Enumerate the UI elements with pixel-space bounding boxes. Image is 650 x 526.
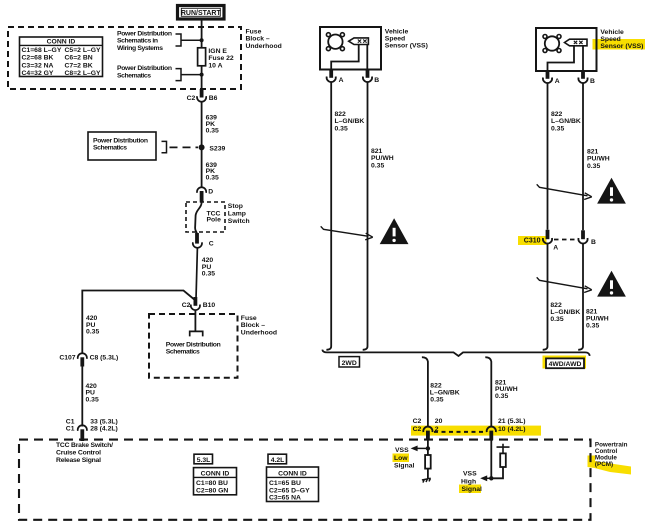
svg-text:Release Signal: Release Signal [56, 457, 101, 464]
connector C2 cup (PCM right) [487, 427, 496, 433]
highlight over "Low" of VSS Low Signal [393, 454, 410, 463]
pin labels C2 20 2 at PCM left [413, 418, 443, 433]
wire 822 from left VSS pin A to bus [326, 82, 331, 350]
svg-text:Block –: Block – [246, 36, 270, 43]
svg-text:Switch: Switch [228, 218, 250, 225]
wire from B10 into fuse block 2 [194, 310, 196, 331]
wire label 822 L-GN/BK 0.35 (right pair) [551, 111, 581, 132]
svg-text:822: 822 [550, 302, 562, 309]
ground (VSS low) [422, 478, 431, 482]
svg-text:20: 20 [435, 418, 443, 425]
svg-text:C5=2 L–GY: C5=2 L–GY [65, 47, 102, 54]
svg-text:A: A [339, 77, 344, 84]
CONN ID table 4.2L [267, 467, 319, 502]
svg-text:VSS: VSS [395, 447, 409, 454]
highlight over 4WD/AWD tag [543, 356, 587, 369]
svg-text:A: A [555, 78, 560, 85]
warning triangle (right lower) [598, 272, 624, 296]
wire label 420 PU 0.35 (branch upper) [86, 315, 99, 335]
connector D cup [197, 187, 206, 193]
highlight swipe over Powertrain Control Module (PCM) label [588, 456, 632, 475]
wire label 821 PU/WH 0.35 (left pair) [371, 148, 394, 169]
svg-text:CONN ID: CONN ID [201, 470, 230, 477]
svg-text:10 (4.2L): 10 (4.2L) [498, 426, 526, 433]
svg-text:Power Distribution: Power Distribution [117, 65, 172, 72]
svg-text:0.35: 0.35 [586, 322, 599, 329]
svg-text:S239: S239 [209, 145, 225, 152]
wire label 639 PK 0.35 (lower) [206, 162, 219, 182]
svg-text:CONN ID: CONN ID [278, 470, 307, 477]
svg-text:Sensor (VSS): Sensor (VSS) [385, 42, 428, 49]
resistor (VSS low) [425, 455, 431, 469]
svg-text:Power Distribution: Power Distribution [166, 341, 221, 348]
svg-text:C310: C310 [524, 238, 541, 245]
junction dot VSS low [426, 446, 430, 450]
svg-text:C2: C2 [413, 426, 422, 433]
connector C310 pin A [543, 230, 552, 244]
connector C2 pin (PCM left) [426, 431, 430, 441]
svg-text:0.35: 0.35 [206, 175, 219, 182]
svg-text:C1=65 BU: C1=65 BU [269, 480, 301, 487]
resistor top lead and internal source bar [497, 444, 510, 454]
svg-text:0.35: 0.35 [206, 127, 219, 134]
warning triangle (right upper) [598, 179, 624, 203]
svg-text:B6: B6 [209, 95, 218, 102]
CONN ID table (fuse block) [20, 37, 103, 77]
connector C cup [193, 242, 202, 248]
svg-text:Pole: Pole [207, 217, 222, 224]
svg-text:Cruise Control: Cruise Control [56, 450, 101, 457]
connector C310 pin B [578, 230, 587, 243]
label Power Distribution Schematics (lower left in fuse block) [117, 65, 172, 79]
wire from fuse to connector C2 B6 [201, 66, 203, 89]
warning triangle (left pair) [381, 220, 407, 244]
svg-text:21 (5.3L): 21 (5.3L) [498, 418, 526, 425]
connector C107 cup [78, 353, 87, 359]
svg-text:Sensor (VSS): Sensor (VSS) [600, 43, 643, 50]
svg-text:4.2L: 4.2L [271, 457, 285, 464]
svg-text:Signal: Signal [462, 486, 483, 493]
label VSS High Signal [461, 471, 482, 494]
svg-text:A: A [553, 244, 558, 251]
label Vehicle Speed Sensor (VSS) right [600, 29, 643, 50]
svg-text:Speed: Speed [600, 36, 620, 43]
wire label 822 L-GN/BK 0.35 (right pair lower) [550, 302, 580, 323]
svg-text:C4=32 GY: C4=32 GY [22, 70, 54, 77]
svg-text:C1=68 L–GY: C1=68 L–GY [22, 47, 62, 54]
label TCC Pole [207, 210, 222, 223]
svg-text:Vehicle: Vehicle [385, 28, 409, 35]
svg-text:Power Distribution: Power Distribution [117, 30, 172, 37]
svg-text:Underhood: Underhood [246, 43, 282, 50]
svg-text:Fuse: Fuse [246, 28, 262, 35]
wire from RUN/START into fuse block [201, 20, 203, 49]
wire label 639 PK 0.35 (upper) [206, 115, 219, 135]
bracket from schematics label to wire [176, 69, 202, 81]
VSS Low signal arrow [411, 446, 428, 452]
wire 822 stub from bus down to PCM pin (left middle) [422, 357, 428, 427]
svg-text:4WD/AWD: 4WD/AWD [549, 361, 582, 368]
left VSS reluctor wheel [326, 33, 344, 51]
RUN/START power feed box [178, 6, 225, 20]
labels A / B at C310 [553, 239, 596, 251]
left VSS pickup coil [349, 38, 369, 45]
bracket from reference box [162, 141, 167, 152]
bracket from wiring systems label to wire [176, 34, 202, 46]
wire 821 from left VSS pin B to bus [363, 82, 368, 350]
svg-text:Vehicle: Vehicle [600, 29, 624, 36]
right VSS pin A [543, 71, 560, 85]
svg-text:Power Distribution: Power Distribution [93, 137, 148, 144]
labels C2 / B6 [187, 95, 218, 102]
connector C2 cup (PCM left) [423, 427, 432, 433]
svg-text:Schematics: Schematics [93, 145, 127, 152]
highlight over C310 connector label [518, 236, 547, 245]
wire 821 from right VSS pin B to C310 [582, 83, 584, 230]
fuse block underhood dashed box (second) [149, 314, 238, 378]
svg-text:IGN E: IGN E [208, 48, 227, 55]
wire label 821 PU/WH 0.35 (right pair lower) [586, 308, 609, 329]
svg-text:Lamp: Lamp [228, 210, 246, 217]
highlight over "Sensor (VSS)" label of right VSS [593, 39, 646, 50]
wire 822 from right VSS pin A to C310 [547, 83, 549, 230]
label Power Distribution Schematics (fuse block 2) [166, 341, 221, 355]
connector D pin [200, 191, 204, 203]
label Fuse Block - Underhood (second) [241, 315, 277, 337]
C310 dashed link [554, 239, 576, 241]
svg-text:0.35: 0.35 [495, 393, 508, 400]
svg-text:Schematics: Schematics [166, 349, 200, 356]
wire from C107 down to C1 [81, 367, 83, 427]
off-page arrow across right pair (upper) [537, 184, 592, 199]
pin labels 21 10 at PCM right [498, 418, 526, 433]
svg-text:C8 (5.3L): C8 (5.3L) [90, 355, 119, 362]
4WD/AWD tag box [546, 358, 584, 368]
svg-text:L–GN/BK: L–GN/BK [551, 118, 581, 125]
svg-text:10 A: 10 A [208, 62, 222, 69]
TCC switch blade [195, 203, 202, 234]
svg-text:PU/WH: PU/WH [586, 315, 609, 322]
svg-text:C3=32 NA: C3=32 NA [22, 62, 54, 69]
CONN ID table 5.3L [194, 468, 237, 495]
svg-text:D: D [208, 188, 213, 195]
svg-text:0.35: 0.35 [86, 396, 99, 403]
junction at fuse bottom tap [200, 73, 204, 77]
svg-text:B: B [374, 77, 379, 84]
svg-text:821: 821 [586, 308, 598, 315]
svg-text:C6=2 BN: C6=2 BN [65, 55, 93, 62]
left VSS internal lead to pin A [331, 45, 359, 70]
wire label 821 PU/WH 0.35 (right pair) [587, 149, 610, 170]
svg-text:RUN/START: RUN/START [181, 10, 222, 17]
svg-text:Fuse 22: Fuse 22 [208, 55, 234, 62]
svg-text:822: 822 [335, 111, 347, 118]
highlight over "Signal" of VSS High Signal [459, 485, 481, 494]
svg-text:C3=65 NA: C3=65 NA [269, 495, 301, 502]
svg-text:2WD: 2WD [342, 360, 357, 367]
svg-text:C2=80 GN: C2=80 GN [196, 487, 228, 494]
left VSS pin A [327, 70, 344, 84]
4.2L tag box [268, 454, 287, 464]
wire 822 from C310 A to bus [543, 243, 548, 350]
svg-text:L–GN/BK: L–GN/BK [550, 309, 580, 316]
label TCC Brake Switch / Cruise Control Release Signal [56, 442, 113, 464]
svg-text:PU/WH: PU/WH [587, 156, 610, 163]
svg-text:28 (4.2L): 28 (4.2L) [90, 426, 118, 433]
connector C2 B10 pin [193, 297, 197, 306]
left VSS internal lead to pin B [366, 45, 368, 70]
Power Distribution Schematics reference box [88, 132, 156, 160]
connector C1 cup [78, 425, 87, 431]
connector C2 B6 pin [200, 89, 204, 98]
label Fuse Block - Underhood [246, 28, 282, 50]
splice S239 [199, 144, 205, 150]
svg-text:C8=2 L–GY: C8=2 L–GY [65, 70, 102, 77]
svg-text:822: 822 [551, 111, 563, 118]
highlight over PCM C2 pin row [411, 426, 541, 436]
svg-text:C1: C1 [66, 418, 75, 425]
wire label 822 L-GN/BK 0.35 (left pair) [335, 111, 365, 132]
5.3L tag box [194, 454, 213, 464]
svg-text:CONN ID: CONN ID [47, 39, 76, 46]
svg-text:B: B [590, 78, 595, 85]
svg-text:Schematics: Schematics [117, 72, 151, 79]
svg-text:Stop: Stop [228, 203, 243, 210]
svg-text:C7=2 BK: C7=2 BK [65, 62, 93, 69]
right VSS box [536, 28, 597, 71]
connector C2 B6 cup [197, 96, 206, 102]
label Vehicle Speed Sensor (VSS) left [385, 28, 428, 49]
labels C2 / B10 [182, 302, 216, 309]
svg-text:B10: B10 [203, 302, 216, 309]
wire from PCM left pin to low ref network [427, 440, 429, 455]
label Stop Lamp Switch [228, 203, 250, 225]
svg-text:Underhood: Underhood [241, 330, 277, 337]
svg-text:C2: C2 [182, 302, 191, 309]
svg-text:821: 821 [587, 149, 599, 156]
svg-text:0.35: 0.35 [86, 329, 99, 336]
right VSS internal lead to pin A [548, 46, 575, 71]
left VSS pin B [363, 70, 379, 84]
connector C107 pin [80, 357, 84, 366]
label Powertrain Control Module (PCM) [595, 442, 628, 468]
labels C1 C1 / 33 28 [66, 418, 118, 432]
drivetrain bus line [322, 350, 589, 356]
svg-text:High: High [461, 478, 476, 485]
fuse IGN E Fuse 22 10 A [198, 48, 234, 70]
wire from switch C down [196, 248, 197, 300]
resistor (VSS high) [500, 453, 506, 467]
svg-text:Block –: Block – [241, 322, 265, 329]
svg-text:0.35: 0.35 [587, 163, 600, 170]
off-page arrow across right pair (lower) [537, 277, 592, 292]
svg-text:Fuse: Fuse [241, 315, 257, 322]
VSS High signal arrow [480, 475, 491, 481]
svg-text:5.3L: 5.3L [197, 457, 211, 464]
svg-text:C2: C2 [413, 418, 422, 425]
label Power Distribution Schematics in Wiring Systems [117, 30, 172, 52]
C2 dashed link between pins [434, 431, 485, 433]
svg-text:C2=65 D–GY: C2=65 D–GY [269, 487, 310, 494]
labels C107 / C8 (5.3L) [59, 355, 118, 362]
svg-text:Signal: Signal [394, 463, 415, 470]
wire label 822 L-GN/BK 0.35 (middle) [430, 383, 460, 404]
svg-text:0.35: 0.35 [371, 162, 384, 169]
svg-text:821: 821 [371, 148, 383, 155]
stop lamp switch dashed box [186, 202, 225, 232]
wire label 420 PU 0.35 (below switch) [202, 257, 215, 277]
left VSS box [320, 27, 381, 70]
junction at fuse top tap [200, 38, 204, 42]
svg-text:L–GN/BK: L–GN/BK [335, 118, 365, 125]
label VSS Low Signal [394, 447, 415, 470]
PCM dashed box [19, 440, 591, 520]
svg-text:C107: C107 [59, 355, 75, 362]
branch wire to left (to C107) [82, 291, 195, 354]
connector C2 pin (PCM right) [489, 431, 493, 441]
wire high resistor bottom leg [491, 466, 503, 478]
junction dot VSS high [489, 476, 493, 480]
right VSS pin B [578, 71, 595, 85]
right VSS reluctor wheel [543, 35, 561, 53]
svg-text:0.35: 0.35 [335, 125, 348, 132]
2WD tag box [339, 357, 360, 367]
svg-text:Low: Low [394, 455, 408, 462]
svg-text:TCC Brake Switch/: TCC Brake Switch/ [56, 442, 113, 449]
fuse block underhood dashed box (top) [8, 27, 241, 89]
connector C pin [195, 233, 199, 244]
svg-text:0.35: 0.35 [551, 125, 564, 132]
wire 821 from C310 B to bus [578, 243, 583, 350]
wire 821 stub from bus down to PCM pin (right middle) [485, 357, 491, 427]
connector C1 pin [80, 429, 84, 441]
svg-text:B: B [591, 239, 596, 246]
wire 639 PK to S239 [201, 102, 203, 187]
svg-text:(PCM): (PCM) [595, 461, 613, 468]
svg-text:0.35: 0.35 [202, 271, 215, 278]
svg-text:0.35: 0.35 [550, 316, 563, 323]
svg-text:Wiring Systems: Wiring Systems [117, 45, 163, 52]
svg-text:VSS: VSS [463, 471, 477, 478]
svg-text:C2: C2 [187, 95, 196, 102]
off-page arrow across left pair [321, 226, 373, 240]
svg-text:Schematics in: Schematics in [117, 38, 158, 45]
wire label 420 PU 0.35 (branch lower) [86, 383, 99, 403]
svg-text:PU/WH: PU/WH [371, 155, 394, 162]
wire label 821 PU/WH 0.35 (middle) [495, 379, 518, 400]
svg-text:C2=68 BK: C2=68 BK [22, 55, 54, 62]
svg-text:C1: C1 [66, 426, 75, 433]
svg-text:C: C [209, 241, 214, 248]
svg-text:Speed: Speed [385, 35, 405, 42]
svg-text:33 (5.3L): 33 (5.3L) [90, 418, 118, 425]
wire resistor to ground [427, 468, 429, 479]
right VSS pickup coil [565, 39, 588, 46]
dashed link to splice [170, 146, 199, 148]
svg-text:0.35: 0.35 [430, 396, 443, 403]
right VSS internal lead to pin B [582, 46, 584, 71]
continuation fork symbol [190, 331, 203, 336]
svg-text:C1=80 BU: C1=80 BU [196, 480, 228, 487]
wire from PCM right pin down [490, 440, 492, 478]
connector C2 B10 cup [191, 305, 200, 311]
